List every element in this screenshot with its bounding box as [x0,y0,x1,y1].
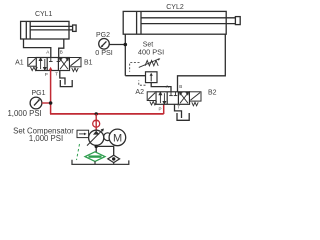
solenoid left valve1 [28,58,36,67]
valve V2 body [156,92,190,105]
pump outlet triangle [93,131,99,135]
wire CYL2 cap port down [124,34,126,75]
svg-text:A2: A2 [135,89,144,96]
red arrowhead at valve1 P [49,67,52,70]
wire pump suction down [95,145,97,152]
svg-text:T: T [55,72,58,77]
pump circle [89,130,104,145]
red wire PG1 to main [42,102,51,104]
pressure reducing valve flow arrow [150,74,152,81]
wire CYL1 rod port to valve B [59,39,64,58]
tank symbol valve1 [60,80,72,87]
valve V1 center box blocked ports [49,58,60,62]
check valve diamond [108,155,120,162]
wire CYL1 cap port to valve A [24,39,51,58]
filter diamond [85,152,105,162]
wire PG2 to CYL2 line [109,44,125,46]
svg-text:0 PSI: 0 PSI [95,48,113,57]
svg-text:P: P [45,72,48,77]
svg-text:PG2: PG2 [96,32,110,39]
spring left valve1 [31,67,38,71]
solenoid right valve1 [70,58,82,67]
valve V1 right box crossed arrows [59,58,68,69]
pressure reducing valve body [146,72,158,83]
svg-text:T: T [177,105,180,110]
junction dot pump line [95,112,98,115]
coupling circle [104,133,112,141]
red arrowhead at valve2 P [162,95,165,98]
junction dot suction [95,145,98,148]
valve V2 right box crossed arrows [179,92,188,103]
svg-text:P: P [158,106,161,111]
solenoid left valve2 [147,92,156,101]
cylinder CYL1 body [21,21,77,39]
svg-text:1,000 PSI: 1,000 PSI [29,134,63,143]
drain dashed line [77,144,80,160]
reservoir tank [72,160,129,165]
compensator box [77,130,89,137]
valve V2 left box arrows [159,92,166,104]
spring right valve1 [72,68,78,72]
pressure reducing valve spring [145,60,158,65]
junction dot PG1 [49,101,53,105]
wire check diamond to tank [113,163,115,165]
wire valve2 T to tank [175,104,182,118]
svg-text:CYL2: CYL2 [166,4,184,11]
cylinder CYL2 body [123,11,240,34]
svg-text:B: B [179,84,182,89]
svg-text:1,000 PSI: 1,000 PSI [7,109,41,118]
solenoid right valve2 [190,92,202,101]
wire reducing valve to valve2 A [151,83,171,92]
svg-text:PG1: PG1 [31,90,45,97]
wire valve1 T to tank [60,71,65,85]
svg-text:A1: A1 [15,60,24,67]
valve V2 center box blocked ports [169,92,177,96]
spring right valve2 [192,102,198,106]
svg-text:A: A [166,84,169,89]
svg-text:B2: B2 [208,90,217,97]
motor M circle [109,129,126,146]
svg-text:CYL1: CYL1 [35,11,53,18]
svg-text:A: A [46,50,49,55]
red pressure line valve1 P down [50,69,52,114]
svg-text:400 PSI: 400 PSI [138,48,164,57]
tank symbol valve2 [177,113,189,120]
check valve red circle [93,120,100,127]
wire CYL2 cap line into reducing valve [125,75,145,77]
svg-text:B1: B1 [84,60,93,67]
wire CYL2 rod port to valve2 B [178,34,226,92]
spring left valve2 [150,101,157,105]
red wire pump to main line [95,114,97,130]
valve V1 body [36,58,69,71]
pump variable arrow [87,130,103,146]
main red pressure line [50,113,164,115]
wire suction branch to check diamond [96,146,114,155]
gauge PG2 [99,39,110,50]
pressure reducing valve adjust arrow [139,59,159,67]
valve V1 left box arrows [39,58,46,70]
pilot dashed lines reducing valve [130,63,146,86]
wire filter to tank [94,161,96,164]
svg-text:M: M [113,133,122,145]
junction dot PG2 [124,43,128,47]
red pressure line valve2 P down [163,97,165,114]
svg-text:B: B [60,50,63,55]
gauge PG1 [30,97,42,109]
